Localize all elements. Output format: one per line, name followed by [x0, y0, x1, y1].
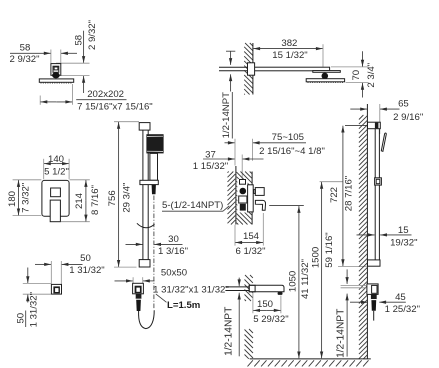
dim 45 dimension line right arrow — [379, 301, 406, 303]
dim 150 extension lines — [252, 293, 254, 314]
dim 722 extension line bottom — [338, 265, 367, 267]
hand shower head dark body — [146, 134, 163, 153]
label 1/2-14NPT right elbow - upper arrow — [346, 269, 348, 284]
shower head front: inner port — [54, 67, 58, 70]
supply elbow dark square — [53, 286, 60, 293]
svg-text:722: 722 — [329, 187, 340, 203]
shower head plate side view — [306, 79, 344, 82]
dim 75~105 dimension line right arrow — [253, 142, 306, 144]
dim 50 vertical underline — [25, 311, 27, 328]
wall union hose connector dark — [136, 294, 142, 299]
wall surface line top band — [252, 43, 254, 95]
dim 140 - extension lines — [43, 159, 45, 180]
svg-text:1 31/32"x1 31/32": 1 31/32"x1 31/32" — [153, 285, 229, 296]
label 1/2-14NPT arm - top tick — [226, 50, 235, 52]
svg-text:154: 154 — [243, 231, 260, 242]
svg-text:1 25/32": 1 25/32" — [385, 304, 420, 315]
slide bar rail side view — [374, 128, 376, 260]
svg-text:7 3/32": 7 3/32" — [20, 183, 31, 213]
svg-text:2 9/32": 2 9/32" — [9, 54, 39, 65]
hand shower handle side view — [381, 133, 386, 151]
dim 70 - upper arrow line — [362, 51, 364, 66]
shower head front: spray face dotted — [41, 82, 73, 84]
hose loop arc over bar — [137, 223, 155, 227]
svg-text:5 29/32": 5 29/32" — [253, 314, 288, 325]
svg-text:50x50: 50x50 — [161, 268, 187, 279]
label 1/2-14NPT arm - upper arrow — [230, 51, 232, 65]
hand shower handle — [150, 153, 158, 180]
svg-text:59 1/16": 59 1/16" — [324, 232, 335, 267]
slide bar top cap — [139, 123, 150, 131]
dim 58 vertical - lower arrow line — [83, 76, 85, 93]
svg-text:1 3/16": 1 3/16" — [158, 246, 188, 257]
slide bar bottom bracket side — [368, 260, 381, 266]
hand shower elbow connector dark — [371, 294, 377, 299]
svg-text:180: 180 — [7, 191, 18, 207]
dim 180 - extension lines — [13, 179, 42, 181]
wall section right elevation hatch — [359, 115, 367, 359]
dim 722 extension line top — [345, 124, 367, 126]
wall section valve band hatch left — [228, 172, 236, 225]
dim 37 dimension line left arrow — [203, 158, 235, 160]
svg-text:6 1/32": 6 1/32" — [235, 246, 265, 257]
shower arm side view — [253, 67, 330, 71]
hose centerline dash-dot — [153, 196, 155, 310]
svg-text:1050: 1050 — [288, 271, 299, 292]
dim 154 dimension line outward arrows — [235, 242, 249, 244]
tub spout body side view — [249, 285, 284, 292]
svg-text:L=1.5m: L=1.5m — [167, 300, 200, 311]
svg-text:8 7/16": 8 7/16" — [90, 185, 101, 215]
valve body lower cartridge — [239, 196, 247, 203]
label 5-(1/2-14NPT) underline — [162, 210, 223, 212]
label 5-(1/2-14NPT) leader — [223, 206, 229, 211]
dim 1500 dimension line arrows — [321, 182, 323, 188]
svg-text:7 15/16"x7 15/16": 7 15/16"x7 15/16" — [77, 101, 153, 112]
label 1/2-14NPT right elbow - lower line — [346, 294, 348, 357]
dim 180 - dimension line outward arrows — [18, 180, 20, 198]
hand shower elbow escutcheon side — [367, 284, 378, 295]
svg-text:5-(1/2-14NPT): 5-(1/2-14NPT) — [162, 200, 223, 211]
dim 37 dimension line right arrow — [243, 158, 264, 160]
dim 756 - extension line bottom — [114, 266, 137, 268]
svg-text:50: 50 — [80, 253, 91, 264]
shower head front: head plate — [39, 79, 73, 82]
wall section bottom band hatch — [245, 329, 254, 359]
label L=1.5m leader — [156, 294, 167, 302]
dim 58 horizontal - extension lines (shower head flange width) — [50, 50, 52, 64]
svg-text:150: 150 — [257, 299, 273, 310]
label 1/2-14NPT arm underline — [231, 92, 233, 139]
hand shower hose connector — [152, 185, 156, 195]
dim 58 vertical - extension lines — [56, 62, 90, 64]
dim 50 horizontal extension lines — [50, 261, 52, 284]
wall section top band hatch — [244, 43, 253, 95]
slide bar rail — [142, 130, 144, 260]
dim 382 dimension line inward arrows — [253, 48, 288, 50]
svg-text:2 9/32": 2 9/32" — [87, 20, 98, 50]
supply elbow escutcheon front — [51, 284, 61, 294]
dim 50 vertical extension lines — [23, 282, 51, 284]
dim 50 horizontal (union width) dimension line — [35, 263, 51, 265]
shower head spray face dotted side — [308, 82, 344, 84]
svg-text:1/2-14NPT: 1/2-14NPT — [223, 307, 234, 356]
svg-text:1500: 1500 — [311, 247, 322, 268]
shower arm end escutcheon — [313, 71, 341, 73]
svg-text:28 7/16": 28 7/16" — [344, 176, 355, 211]
floor line — [250, 358, 371, 360]
shower head ball joint side — [322, 73, 329, 80]
dim 30 - dimension line left part with arrow — [126, 243, 143, 245]
dim 50 vertical (union height) upper arrow line — [27, 268, 29, 284]
wall union escutcheon front — [133, 283, 144, 294]
dim 58 horizontal - dimension lines with arrows — [10, 52, 51, 54]
dim 722 dimension line arrows — [342, 126, 344, 190]
label 1/2-14NPT arm - lower arrow line — [230, 74, 232, 91]
dim 37 right extension line into valve — [241, 155, 243, 183]
slide bar holder bracket — [140, 180, 158, 184]
mixer trim plate side view — [248, 185, 254, 212]
svg-text:2 3/4": 2 3/4" — [366, 63, 377, 88]
svg-text:1 15/32": 1 15/32" — [193, 161, 228, 172]
mixer trim plate front — [42, 180, 69, 216]
svg-text:50: 50 — [15, 313, 26, 324]
dim 15 dimension line right arrow — [380, 234, 411, 236]
dim 50 vertical lower arrow line — [27, 295, 29, 303]
valve center extension line right — [269, 205, 304, 207]
dim 58 vertical - dimension line upper with arrow — [83, 31, 85, 63]
wall section spout band hatch — [245, 275, 253, 301]
dim 214 - extension lines — [70, 179, 90, 181]
dim 1050 dimension line arrows — [298, 206, 300, 212]
svg-text:2 15/16"~4 1/8": 2 15/16"~4 1/8" — [259, 146, 325, 157]
valve body top stem — [240, 180, 246, 185]
svg-text:202x202: 202x202 — [87, 89, 124, 100]
dim 756 - dimension line outward arrows — [118, 122, 120, 194]
svg-text:45: 45 — [395, 292, 406, 303]
hand shower hose end line — [373, 311, 375, 321]
svg-text:19/32": 19/32" — [390, 238, 417, 249]
dim 214 - dimension line outward arrows — [85, 180, 87, 201]
tub spout supply pipes — [225, 286, 249, 288]
slide bar slider clamp side — [375, 178, 382, 185]
svg-text:2 9/16": 2 9/16" — [393, 112, 423, 123]
svg-text:15 1/32": 15 1/32" — [272, 50, 307, 61]
dim 70 - extension lines — [331, 66, 369, 68]
svg-text:58: 58 — [20, 43, 31, 54]
dim 50x50 - dimension line arrows — [115, 280, 133, 282]
shower head front: flange inner square — [53, 66, 59, 72]
wall section valve band hatch right — [237, 172, 252, 225]
slide bar bottom cap — [139, 260, 150, 267]
dim 202x202 - dimension line with outward arrows — [41, 101, 57, 103]
wall surface line right elevation — [366, 104, 368, 359]
svg-text:5 1/2": 5 1/2" — [44, 167, 69, 178]
dim 202x202 - label shelf line — [76, 99, 126, 101]
svg-text:65: 65 — [398, 99, 409, 110]
floor hatch ticks — [248, 360, 369, 366]
dim 45 dimension line left arrow — [350, 301, 368, 303]
svg-text:70: 70 — [351, 70, 362, 81]
slide bar top bracket side — [368, 122, 381, 129]
label 1/2-14NPT spout - upper arrow — [238, 278, 240, 287]
wall finished surface line at valve — [251, 172, 253, 225]
label 1/2-14NPT spout - lower line — [238, 293, 240, 357]
wall rough surface line at valve — [235, 166, 237, 225]
valve body white backing — [237, 179, 247, 213]
dim 382 right extension line — [322, 44, 324, 67]
mixer handle front — [50, 200, 60, 222]
dim 150 dimension line outward arrows — [253, 309, 267, 311]
svg-text:29 3/4": 29 3/4" — [121, 183, 132, 213]
dim 75~105 extension lines — [234, 139, 236, 166]
valve body lower dark block — [240, 204, 246, 211]
svg-text:1 31/32": 1 31/32" — [29, 292, 40, 327]
dim 1500 extension line top — [320, 181, 343, 183]
dim 65 extension line right — [379, 104, 381, 134]
svg-text:756: 756 — [107, 190, 118, 206]
svg-text:1/2-14NPT: 1/2-14NPT — [335, 309, 346, 358]
dim 70 - lower arrow line — [362, 83, 364, 98]
shower head front: flange outer square — [51, 64, 61, 76]
svg-text:15: 15 — [398, 225, 409, 236]
wall union dark square — [135, 286, 142, 294]
svg-text:214: 214 — [74, 192, 85, 209]
dim 65 dimension line left arrow — [350, 108, 367, 110]
svg-text:41 11/32": 41 11/32" — [300, 259, 311, 299]
shower arm supply pipe behind wall — [219, 66, 253, 68]
hose loop curve bottom — [139, 310, 155, 328]
valve body dark port — [240, 188, 247, 195]
dim 65 dimension line right arrow — [380, 108, 399, 110]
dim 15 dimension line left arrow — [357, 234, 375, 236]
mixer lever side — [255, 200, 265, 210]
tub spout wall joint square — [249, 285, 255, 292]
dim 30 - dimension line right part with arrow — [154, 243, 182, 245]
mixer valve opening square — [51, 188, 61, 197]
svg-text:58: 58 — [73, 35, 84, 46]
dim 140 - dimension line with outward arrows — [44, 163, 56, 165]
svg-text:75~105: 75~105 — [272, 132, 304, 143]
dim 202x202 - extension lines — [39, 96, 41, 105]
svg-text:1/2-14NPT: 1/2-14NPT — [221, 92, 232, 139]
dim 75~105 dimension line left arrow — [225, 142, 235, 144]
dim 756 - extension line top — [114, 121, 139, 123]
tub spout outlet dark — [278, 292, 283, 295]
dim 154 extension lines — [234, 225, 236, 246]
label 1/2-14NPT right elbow - extension ticks — [341, 284, 367, 286]
dim 50x50 - extension lines — [132, 277, 134, 283]
svg-text:382: 382 — [281, 38, 297, 49]
shower head front: ball joint — [52, 72, 60, 78]
shower arm wall flange — [248, 63, 255, 75]
svg-text:1 31/32": 1 31/32" — [69, 265, 104, 276]
svg-text:30: 30 — [168, 234, 179, 245]
mixer handle knob side — [255, 188, 264, 196]
